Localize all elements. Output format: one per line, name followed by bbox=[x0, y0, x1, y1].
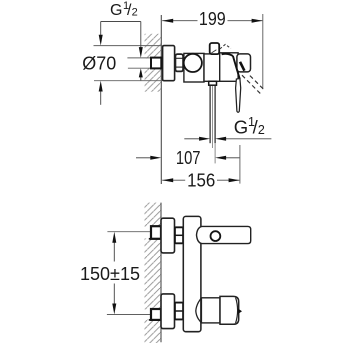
svg-text:G: G bbox=[234, 116, 248, 137]
G1/2 label (top) bbox=[110, 0, 138, 19]
svg-text:Ø70: Ø70 bbox=[82, 54, 116, 74]
svg-text:150±15: 150±15 bbox=[80, 263, 140, 284]
150 dimension line with arrows bbox=[112, 232, 116, 315]
lever end block bbox=[237, 54, 251, 72]
outlet G1/2 right arrow and leader bbox=[215, 137, 271, 141]
body column (bottom view) bbox=[183, 216, 201, 331]
svg-text:2: 2 bbox=[132, 6, 138, 18]
outlet G1/2 left arrow bbox=[184, 137, 210, 141]
body block A (top view) bbox=[184, 53, 204, 82]
lever tip triangle bbox=[238, 308, 242, 314]
escutcheon upper (bottom view) bbox=[161, 218, 175, 253]
lever shaft bbox=[236, 79, 241, 113]
union nut (top view) bbox=[175, 54, 183, 71]
199 right extension line bbox=[262, 14, 264, 89]
ball joint bbox=[184, 54, 202, 72]
escutcheon (top view) bbox=[163, 46, 175, 81]
aerator circle bbox=[211, 231, 221, 241]
107 dimension right arrow bbox=[215, 156, 240, 160]
knob on top bbox=[210, 43, 220, 54]
inlet pipe bottom extension line bbox=[128, 67, 151, 69]
G1/2 leader line (top label) bbox=[101, 21, 141, 23]
156 dimension line bbox=[162, 178, 239, 182]
wall surface line (bottom view) bbox=[160, 203, 162, 343]
shower outlet fitting bbox=[209, 81, 217, 85]
shower outlet pipe left line bbox=[209, 85, 211, 143]
lever end slash mark bbox=[240, 62, 244, 71]
inlet pipe top extension line bbox=[127, 57, 151, 59]
body block B (top view) bbox=[204, 54, 220, 81]
svg-text:156: 156 bbox=[187, 171, 215, 191]
diameter 70 upper arrow (down) bbox=[99, 22, 103, 46]
G1/2 inlet arrow (up, at wall) bbox=[139, 68, 143, 80]
150 dimension bottom extension line bbox=[107, 314, 151, 316]
outlet pipe extension line bbox=[214, 143, 216, 163]
handle drum bbox=[201, 298, 220, 323]
handle knob bbox=[220, 296, 239, 324]
wall hatching (bottom view) bbox=[145, 203, 162, 343]
diameter 70 bottom extension line bbox=[94, 80, 163, 82]
supply bore lower (white channel through wall) bbox=[143, 309, 152, 319]
156 right extension line bbox=[239, 145, 241, 184]
diameter 70 lower arrow (up) bbox=[99, 81, 103, 105]
inlet pipe bore (white channel through wall) bbox=[127, 58, 151, 67]
lever upper edge bbox=[233, 56, 240, 79]
diameter 70 top extension line bbox=[94, 45, 163, 47]
supply bore upper (white channel through wall) bbox=[143, 227, 152, 239]
union nut lower (bottom view) bbox=[175, 303, 183, 320]
spout arm bbox=[197, 226, 251, 243]
union nut upper (bottom view) bbox=[175, 227, 183, 243]
outlet pipe center line bbox=[212, 86, 214, 148]
handle cone bbox=[196, 298, 202, 323]
G1/2 inlet arrow (down, at wall) bbox=[139, 22, 143, 58]
wall hatching (top view) bbox=[145, 34, 162, 92]
svg-text:G: G bbox=[110, 2, 122, 19]
svg-text:107: 107 bbox=[176, 148, 201, 168]
escutcheon lower (bottom view) bbox=[161, 294, 175, 329]
dashed lever raised position line 1 bbox=[242, 75, 262, 95]
dashed knob raised position bbox=[220, 44, 231, 49]
supply pipe stub in wall (top view) bbox=[151, 58, 161, 69]
wall surface line (top view) bbox=[160, 15, 162, 184]
shower outlet pipe right line bbox=[214, 85, 216, 143]
supply pipe stub upper (bottom view) bbox=[149, 226, 161, 239]
handle face arc bbox=[236, 298, 238, 324]
svg-text:199: 199 bbox=[199, 9, 226, 29]
150 dimension top extension line bbox=[107, 231, 151, 233]
supply pipe stub lower (bottom view) bbox=[149, 309, 161, 320]
199 dimension line bbox=[162, 19, 262, 23]
107 dimension left arrow bbox=[136, 156, 161, 160]
dashed lever raised position line 2 bbox=[250, 76, 263, 89]
G1/2 label (outlet) bbox=[234, 115, 265, 137]
svg-text:2: 2 bbox=[258, 123, 265, 137]
cartridge block (top view) bbox=[220, 53, 238, 82]
lever cap curve bbox=[222, 54, 233, 56]
